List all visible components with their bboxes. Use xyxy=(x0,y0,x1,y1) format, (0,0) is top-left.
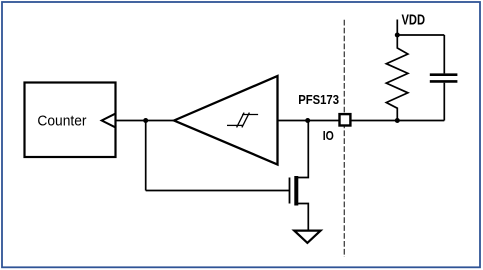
Counter label xyxy=(37,113,86,129)
wire: Counter to Schmitt output node xyxy=(116,120,175,122)
chip boundary dashed line xyxy=(343,20,345,257)
wire: gate wire to transistor xyxy=(146,190,290,192)
svg-text:PFS173: PFS173 xyxy=(298,93,339,107)
wire: VDD stub xyxy=(396,20,398,36)
IO label xyxy=(323,129,334,143)
IO pad xyxy=(340,114,351,125)
transistor Q1 (open-drain NMOS) xyxy=(290,176,297,206)
wire: IO pad to external rail xyxy=(352,120,445,122)
svg-text:VDD: VDD xyxy=(402,12,426,28)
PFS173 label xyxy=(298,93,339,107)
node junction C (pull-up bottom) xyxy=(395,118,400,123)
input arrowhead into Counter xyxy=(102,113,116,127)
svg-text:Counter: Counter xyxy=(37,113,86,129)
schmitt-trigger buffer U1 xyxy=(174,76,278,165)
Counter block xyxy=(25,83,116,158)
wire: VDD node to capacitor branch xyxy=(397,34,444,36)
hysteresis symbol xyxy=(227,113,258,128)
node junction A (feedback tap) xyxy=(143,118,148,123)
ground xyxy=(294,231,320,243)
svg-text:IO: IO xyxy=(323,129,334,143)
wire: feedback drop from node A xyxy=(145,121,147,191)
node junction D (VDD node) xyxy=(395,33,400,38)
wire: capacitor top lead xyxy=(443,35,445,73)
wire: source to ground xyxy=(297,204,309,231)
capacitor C1 xyxy=(430,75,458,82)
VDD label xyxy=(402,12,426,28)
node junction B (drain tap) xyxy=(305,118,310,123)
wire: buffer input from IO node xyxy=(278,120,340,122)
resistor R1 (pull-up) xyxy=(386,35,408,121)
wire: drain riser xyxy=(297,121,309,178)
wire: capacitor bottom lead xyxy=(443,83,445,121)
